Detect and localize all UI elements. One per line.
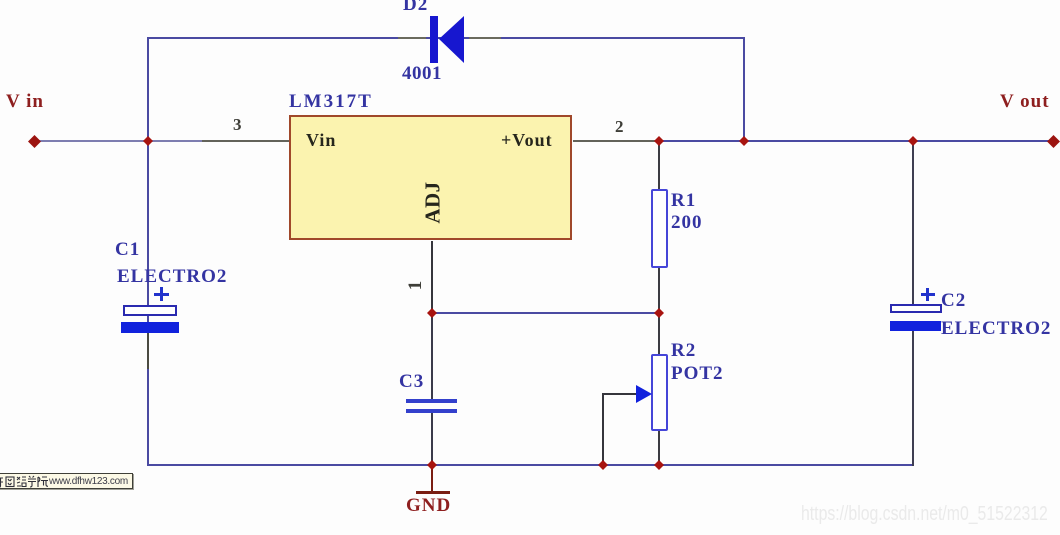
wire: pot wiper horizontal y=394 x603-637 bbox=[603, 393, 638, 395]
label POT2 bbox=[671, 363, 724, 385]
label ELECTRO2 (C2) bbox=[941, 318, 1051, 340]
wire: R2 bottom to bottom wire y431-465 bbox=[658, 431, 660, 466]
C1 plus sign bbox=[154, 293, 169, 296]
junction x659 y313 bbox=[654, 308, 664, 318]
wire: R1 bottom to junction y268-313 bbox=[658, 268, 660, 314]
label D2 bbox=[403, 0, 428, 16]
wire: C2 branch vertical x=913 y141 to C2 top bbox=[912, 141, 914, 305]
junction x148 y141 bbox=[143, 136, 153, 146]
wire: C1 pin stub below cap darker bbox=[147, 333, 149, 369]
wire: bottom horizontal y=465 from x148 to x913 bbox=[148, 464, 914, 466]
pin number 3 bbox=[233, 115, 243, 135]
potentiometer wiper arrowhead bbox=[636, 385, 653, 403]
capacitor C2 solid bottom plate bbox=[890, 321, 941, 331]
pin name ADJ rotated bbox=[421, 178, 446, 228]
pin 3 stub gray x202-289 bbox=[202, 140, 289, 142]
diode D2 bbox=[425, 12, 470, 67]
wire: vertical x=659 pin2 junction down to R1 bbox=[658, 141, 660, 189]
wire: left vertical x=148 from top loop down to bottom wire bbox=[147, 37, 149, 466]
capacitor C3 top plate bbox=[406, 399, 457, 403]
junction x744 y141 bbox=[739, 136, 749, 146]
label 200 bbox=[671, 212, 703, 234]
junction x659 y141 bbox=[654, 136, 664, 146]
wire: C2 bottom to bottom wire bbox=[912, 331, 914, 466]
wire: top loop horizontal y=38 from x148 to x744 bbox=[148, 37, 745, 39]
label LM317T bbox=[289, 91, 373, 113]
pin number 2 bbox=[615, 117, 625, 137]
wire: x=432 C3 bottom plate to bottom wire bbox=[431, 413, 433, 466]
wire: diode left pin gray segment bbox=[398, 37, 426, 39]
label ELECTRO2 (C1) bbox=[117, 266, 227, 288]
label V out bbox=[1000, 91, 1050, 113]
potentiometer R2 body bbox=[651, 354, 668, 431]
terminal V out diamond bbox=[1047, 135, 1060, 148]
label C2 bbox=[941, 290, 966, 312]
wire: Vin horizontal from terminal x34 to x202 y=141 bbox=[34, 140, 202, 142]
junction x603 y465 bbox=[598, 460, 608, 470]
watermark bbox=[801, 503, 1048, 526]
C2 plus sign bbox=[921, 293, 935, 296]
junction x432 y465 (GND) bbox=[427, 460, 437, 470]
pin name Vin bbox=[306, 130, 336, 151]
logo box bottom-left bbox=[0, 473, 133, 489]
pin 2 stub gray x573-659 bbox=[573, 140, 659, 142]
junction x913 y141 bbox=[908, 136, 918, 146]
junction x432 y313 bbox=[427, 308, 437, 318]
label 4001 bbox=[402, 63, 442, 85]
label C3 bbox=[399, 371, 424, 393]
regulator U1 LM317T body bbox=[289, 115, 572, 240]
wire: ADJ feedback horizontal y=313 from x432 to x659 bbox=[432, 312, 659, 314]
resistor R1 body bbox=[651, 189, 668, 268]
wire: main output horizontal y=141 from x659 to x1053 bbox=[659, 140, 1053, 142]
pin number 1 rotated bbox=[405, 275, 427, 295]
wire: junction y313 to R2 top y354 bbox=[658, 313, 660, 354]
logo CJK glyph strokes bbox=[0, 475, 48, 489]
label R2 bbox=[671, 340, 696, 362]
wire: ADJ pin vertical x=432 box bottom to junction bbox=[431, 241, 433, 313]
label C1 bbox=[115, 239, 140, 261]
label V in bbox=[6, 91, 44, 113]
capacitor C2 electrolytic: hollow top plate bbox=[890, 304, 942, 313]
ground GND symbol bbox=[431, 466, 433, 492]
terminal V in diamond bbox=[28, 135, 41, 148]
wire: diode right pin gray segment bbox=[469, 37, 501, 39]
label GND bbox=[406, 495, 451, 517]
wire: x=432 junction down to C3 top plate bbox=[431, 313, 433, 399]
pin name +Vout bbox=[501, 130, 553, 151]
capacitor C1 electrolytic: hollow top plate bbox=[123, 305, 177, 316]
capacitor C1 solid bottom plate bbox=[121, 322, 179, 333]
wire: pot wiper vertical x=603 y394-465 bbox=[602, 393, 604, 466]
wire: top loop right vertical x=744 y38-141 bbox=[743, 37, 745, 142]
label R1 bbox=[671, 190, 696, 212]
junction x659 y465 bbox=[654, 460, 664, 470]
capacitor C3 bottom plate bbox=[406, 409, 457, 413]
